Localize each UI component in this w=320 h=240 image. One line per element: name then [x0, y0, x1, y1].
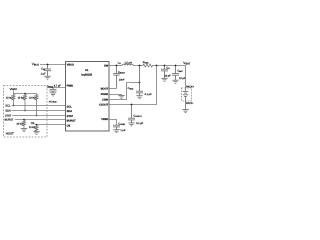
junction CE pulldown — [36, 124, 38, 126]
svg-text:STAT: STAT — [67, 115, 74, 118]
junction RSNS left — [139, 65, 141, 67]
svg-text:10 kΩ: 10 kΩ — [29, 96, 36, 99]
capacitor CCSOUT 0.1uF — [128, 105, 135, 123]
svg-text:HOST: HOST — [6, 131, 14, 135]
IC U1 bq24130 battery charger — [66, 62, 110, 132]
capacitor CIN 1uF — [44, 65, 51, 76]
svg-text:0.1 µF: 0.1 µF — [145, 93, 152, 96]
svg-text:CO: CO — [166, 66, 170, 70]
svg-text:10 µF: 10 µF — [179, 77, 186, 80]
wire CBOOT to BOOT pin — [109, 88, 117, 90]
resistor pullup 10k STAT — [35, 94, 38, 116]
host dashed box — [4, 86, 48, 138]
svg-text:BURST: BURST — [67, 119, 76, 122]
svg-text:CSNS: CSNS — [128, 87, 134, 91]
svg-text:4.7 µF: 4.7 µF — [54, 85, 61, 88]
junction SW/CBOOT — [116, 65, 118, 67]
svg-text:bq24130: bq24130 — [81, 74, 92, 77]
svg-text:SDA: SDA — [67, 110, 73, 113]
capacitor CPMID 4.7uF — [50, 88, 57, 93]
wire VMAX rail — [14, 91, 37, 94]
wire PGND to ground — [109, 94, 122, 97]
svg-text:SDA: SDA — [5, 109, 11, 112]
battery cell symbol — [183, 91, 189, 109]
resistor pullup 10k SCL — [12, 94, 15, 106]
junction CBAT — [175, 65, 177, 67]
junction BURST pulldown — [23, 119, 25, 121]
svg-text:CSIN: CSIN — [102, 99, 108, 102]
junction CO — [164, 65, 166, 67]
capacitor CSNS 0.1uF — [136, 66, 143, 96]
svg-text:U1: U1 — [85, 69, 89, 72]
ground CPMID — [50, 93, 56, 96]
ground CCSOUT — [128, 123, 134, 126]
junction VBUS/CIN — [47, 64, 49, 66]
junction rail R2 — [24, 93, 26, 95]
svg-text:STAT: STAT — [5, 114, 12, 117]
capacitor CVREF 1uF — [113, 125, 120, 129]
svg-text:10 kΩ: 10 kΩ — [6, 96, 13, 99]
junction R2/SDA — [24, 110, 26, 112]
svg-text:CCSOUT: CCSOUT — [133, 115, 142, 119]
battery pack dashed box — [182, 88, 192, 101]
svg-text:CIN: CIN — [41, 67, 45, 71]
wire CSOUT to battery node — [109, 66, 157, 105]
svg-text:10 kΩ: 10 kΩ — [29, 126, 36, 129]
svg-text:LO: LO — [118, 62, 121, 66]
junction RSNS right — [156, 65, 158, 67]
ground CO — [161, 78, 167, 81]
svg-text:CBOOT: CBOOT — [118, 71, 126, 75]
wire VBUS to IC — [40, 64, 66, 66]
junction CSIN/CSNS — [139, 82, 141, 84]
svg-text:PACK+: PACK+ — [186, 85, 195, 88]
svg-text:CE: CE — [31, 122, 35, 125]
wire SCL — [12, 105, 66, 107]
svg-text:1 µF: 1 µF — [120, 129, 125, 132]
svg-text:I²C Bus: I²C Bus — [49, 101, 58, 104]
svg-text:PACK-: PACK- — [186, 102, 194, 105]
wire CE — [35, 124, 66, 126]
capacitor CO 10uF — [161, 66, 168, 79]
svg-text:RSNS: RSNS — [143, 61, 149, 65]
svg-text:SCL: SCL — [5, 104, 11, 107]
wire VREF to cap — [109, 120, 117, 126]
resistor RSNS — [142, 64, 153, 67]
svg-text:CPMID: CPMID — [47, 85, 54, 89]
svg-text:CSOUT: CSOUT — [99, 103, 108, 106]
ground battery — [182, 110, 188, 113]
svg-text:BURST: BURST — [5, 118, 14, 121]
ground CBAT — [172, 80, 178, 83]
svg-text:CVREF: CVREF — [118, 123, 126, 127]
wire PMID to IC — [47, 87, 66, 89]
ground CE pulldown — [33, 131, 39, 134]
wire CSIN to RSNS left node — [109, 83, 140, 100]
inductor LO 1.0uH — [122, 64, 133, 65]
capacitor CBOOT 10nF — [113, 66, 120, 89]
svg-text:CBAT: CBAT — [177, 69, 183, 73]
junction CSOUT cap — [131, 104, 133, 106]
svg-text:10 kΩ: 10 kΩ — [16, 123, 23, 126]
capacitor CBAT 10uF — [172, 66, 179, 80]
svg-text:0.1 µF: 0.1 µF — [136, 122, 143, 125]
svg-text:VREF: VREF — [101, 118, 108, 121]
wire SDA — [12, 110, 66, 112]
resistor pullup 10k SDA — [24, 94, 27, 111]
ground CVREF — [113, 130, 119, 133]
resistor pulldown 10k CE — [35, 125, 38, 132]
ground BURST pulldown — [21, 129, 27, 132]
svg-text:1 µF: 1 µF — [41, 73, 47, 76]
resistor pulldown 10k BURST — [23, 120, 26, 129]
wire RSNS to VBAT corner — [153, 66, 185, 92]
svg-text:BOOT: BOOT — [101, 88, 109, 91]
svg-text:10nF: 10nF — [119, 78, 125, 81]
svg-text:VBUS: VBUS — [32, 62, 39, 67]
svg-text:PGND: PGND — [101, 93, 109, 96]
svg-text:SW: SW — [104, 64, 109, 67]
ground CSNS — [136, 96, 142, 99]
junction R1/SCL — [13, 105, 15, 107]
svg-text:SCL: SCL — [67, 105, 73, 108]
svg-text:VBAT: VBAT — [183, 61, 190, 66]
wire STAT — [12, 115, 65, 117]
svg-text:CE: CE — [67, 124, 71, 127]
svg-text:1.0 µH: 1.0 µH — [124, 61, 132, 64]
wire SW to inductor — [109, 65, 122, 67]
svg-text:PMID: PMID — [67, 84, 74, 87]
svg-text:10 kΩ: 10 kΩ — [18, 96, 25, 99]
ground PGND — [118, 95, 124, 98]
svg-text:VBUS: VBUS — [67, 64, 74, 67]
wire BURST — [15, 119, 66, 121]
svg-text:VMAX: VMAX — [10, 88, 18, 91]
wire inductor to RSNS — [133, 65, 142, 67]
ground CIN — [44, 76, 50, 79]
junction R3/STAT — [36, 115, 38, 117]
svg-text:10 µF: 10 µF — [164, 75, 171, 78]
